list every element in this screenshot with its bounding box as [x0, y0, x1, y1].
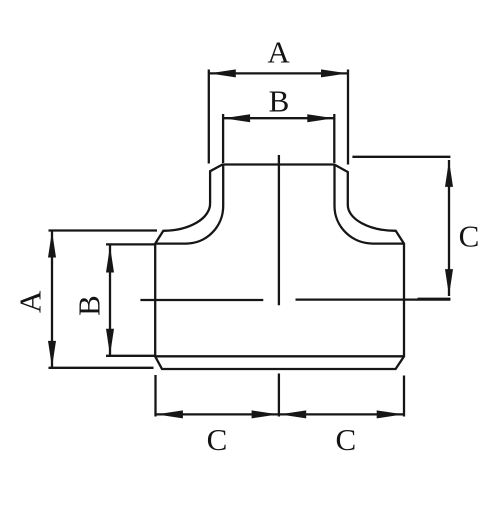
svg-text:B: B — [71, 295, 106, 316]
svg-text:B: B — [269, 83, 290, 118]
svg-text:C: C — [335, 422, 356, 457]
svg-text:A: A — [12, 290, 47, 313]
svg-text:C: C — [207, 422, 228, 457]
svg-text:A: A — [267, 35, 290, 70]
svg-text:C: C — [459, 219, 480, 254]
